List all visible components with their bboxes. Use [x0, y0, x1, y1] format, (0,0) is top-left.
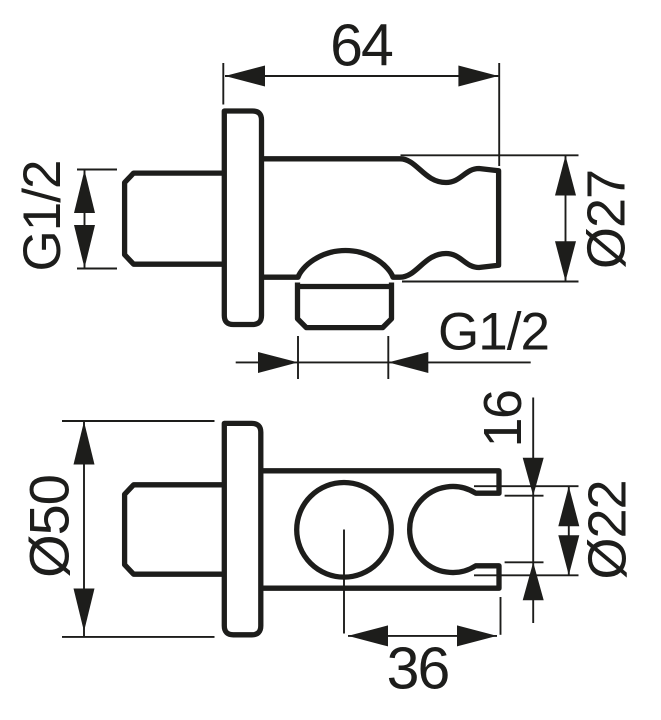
bottom view: wall flange plate	[224, 423, 260, 634]
dim 36 line	[348, 635, 497, 637]
arrowheads dim D27	[555, 156, 576, 196]
dim 36 extension line right	[500, 597, 502, 635]
bottom view: G1/2 threaded nipple	[125, 485, 225, 574]
arrowheads dim D50	[74, 422, 95, 465]
dim D22 line	[568, 486, 570, 575]
svg-text:16: 16	[473, 390, 533, 447]
dim D27 line	[565, 155, 567, 281]
bottom view: big circle (hole)	[297, 483, 392, 578]
svg-text:Ø50: Ø50	[18, 475, 81, 578]
top view: wall flange plate	[224, 111, 261, 325]
dim G1/2 left line	[84, 170, 86, 269]
arrowheads dim 64	[225, 66, 265, 87]
dim G1/2 bottom extension lines	[298, 336, 388, 379]
dim 64 extension lines	[223, 63, 499, 166]
top view: G1/2 threaded nipple	[125, 173, 225, 264]
dim D50 extension lines	[62, 421, 215, 637]
dim G1/2 left extension lines	[77, 170, 117, 269]
dim D27 extension lines	[401, 155, 579, 281]
top view: outlet nut top line	[298, 284, 392, 289]
dim D50 line	[83, 421, 85, 637]
arrowheads dim G1/2 left	[74, 170, 95, 213]
svg-text:Ø27: Ø27	[577, 170, 637, 269]
leader line from circle center	[343, 530, 345, 634]
arrowheads dim 36 (outward)	[348, 625, 388, 646]
dim G1/2 bottom line with tails	[236, 361, 531, 363]
dim 16 extension lines	[505, 496, 544, 563]
arrowheads dim G1/2 bottom (outside, pointing in)	[258, 352, 298, 373]
bottom view: holder body with C-slot	[261, 471, 499, 588]
top view: holder body outline	[262, 159, 499, 277]
svg-text:G1/2: G1/2	[13, 161, 72, 272]
arrowheads dim 16 (facing each other)	[523, 458, 544, 496]
dim 64 line	[225, 75, 498, 77]
arrowheads dim D22	[558, 486, 579, 526]
svg-text:Ø22: Ø22	[578, 480, 638, 579]
top view: bottom outlet nut	[298, 283, 392, 328]
svg-text:G1/2: G1/2	[438, 303, 549, 362]
dim D22 extension lines	[474, 486, 579, 575]
svg-text:36: 36	[387, 636, 449, 702]
svg-text:64: 64	[330, 13, 393, 79]
dim 16 line	[532, 398, 534, 624]
